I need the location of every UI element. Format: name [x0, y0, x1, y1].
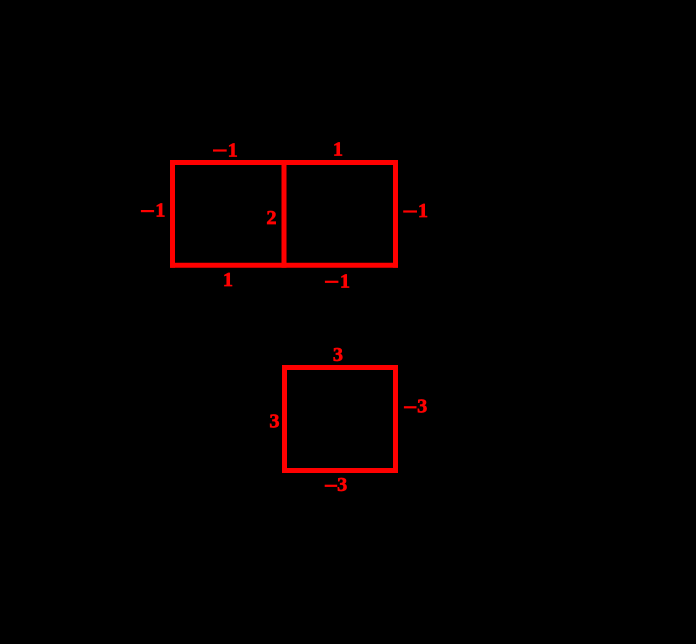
- wire: top edge of left square: [170, 160, 284, 165]
- svg-text:1: 1: [418, 200, 428, 222]
- svg-text:1: 1: [155, 200, 165, 222]
- svg-text:3: 3: [333, 344, 343, 366]
- label -3 below lower square: [325, 474, 348, 496]
- wire: right edge of lower square: [393, 365, 398, 473]
- svg-text:2: 2: [266, 207, 276, 229]
- wire: left edge of lower square: [282, 365, 287, 473]
- wire: left edge of top rectangle: [170, 160, 175, 268]
- wire: top edge of lower square: [282, 365, 398, 370]
- wire: bottom edge of left square: [170, 263, 284, 268]
- svg-text:3: 3: [337, 474, 347, 496]
- label -1 below right square: [325, 271, 350, 293]
- svg-text:1: 1: [223, 269, 233, 291]
- label -1 above left square: [213, 139, 238, 161]
- wire: bottom edge of lower square: [282, 468, 398, 473]
- wire: bottom edge of right square: [284, 263, 398, 268]
- wire: middle shared edge of top rectangle: [282, 160, 287, 268]
- label -3 right of lower square: [404, 395, 427, 417]
- svg-text:1: 1: [228, 139, 238, 161]
- wire: top edge of right square: [284, 160, 398, 165]
- label -1 right of rectangle: [403, 200, 428, 222]
- svg-text:3: 3: [269, 411, 279, 433]
- svg-text:3: 3: [417, 395, 427, 417]
- label -1 left of rectangle: [141, 200, 165, 222]
- wire: right edge of top rectangle: [393, 160, 398, 268]
- svg-text:1: 1: [340, 271, 350, 293]
- svg-text:1: 1: [333, 139, 343, 161]
